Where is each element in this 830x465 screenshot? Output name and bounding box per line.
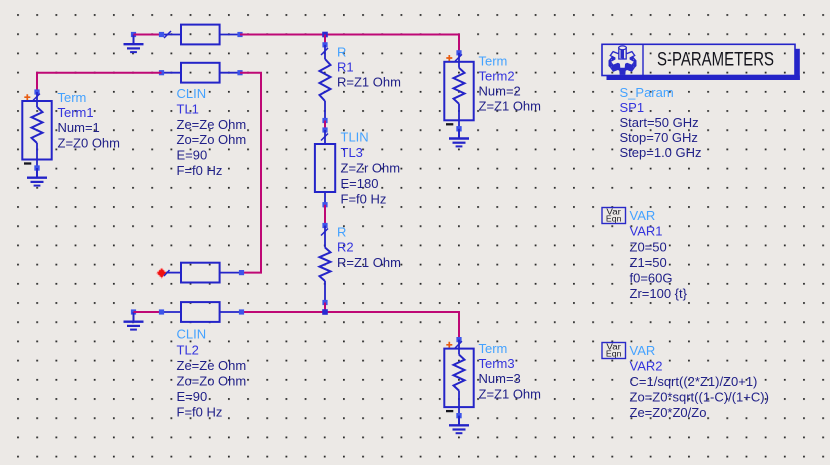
svg-text:Term3: Term3 [479, 356, 515, 371]
wire: GND1 to CLIN TL1 pin 2 [134, 34, 162, 36]
svg-text:F=f0 Hz: F=f0 Hz [177, 163, 223, 178]
wire: TL1 pin 4 to Term1 [37, 73, 162, 92]
svg-text:Num=2: Num=2 [479, 84, 521, 99]
ground GND1 (top-left, at CLIN TL1 pin 2) [124, 32, 144, 52]
svg-text:Z0=50: Z0=50 [630, 239, 667, 254]
svg-text:TLIN: TLIN [341, 130, 369, 145]
svg-text:VAR2: VAR2 [630, 359, 663, 374]
node: Term3 bottom pin [456, 413, 461, 418]
port/terminator Term1 [22, 92, 51, 168]
svg-text:SP1: SP1 [620, 100, 645, 115]
svg-text:Num=1: Num=1 [58, 120, 100, 135]
wire: R2 pin 2 to node n3 [324, 303, 326, 313]
unconnected pin marker: TL2 pin 2 (red diamond) [157, 268, 170, 278]
variables block VAR1 (VarEqn icon) [602, 208, 626, 224]
svg-text:VAR: VAR [630, 208, 656, 223]
svg-text:C=1/sqrt((2*Z1)/Z0+1): C=1/sqrt((2*Z1)/Z0+1) [630, 374, 758, 389]
R1 value labels [337, 45, 401, 90]
svg-text:Ze=Z0*Z0/Zo: Ze=Z0*Z0/Zo [630, 405, 707, 420]
gear icon [609, 46, 637, 75]
Term1 value labels [58, 90, 121, 150]
svg-text:Zr=100 {t}: Zr=100 {t} [630, 286, 688, 301]
ground GND2 (left of CLIN TL2) [124, 309, 144, 329]
S_Param SP1 value labels [620, 85, 702, 160]
svg-text:Start=50 GHz: Start=50 GHz [620, 115, 699, 130]
svg-text:TL1: TL1 [177, 101, 199, 116]
wire: TL1 pin 3 down to CLIN TL2 pin 1 [240, 73, 261, 273]
svg-text:S-PARAMETERS: S-PARAMETERS [657, 49, 774, 70]
svg-text:Zo=Z0*sqrt((1-C)/(1+C)): Zo=Z0*sqrt((1-C)/(1+C)) [630, 390, 769, 405]
CLIN TL2 value labels [177, 327, 247, 420]
coupled-line CLIN TL2 [159, 263, 244, 322]
node: Term2 top pin [456, 50, 461, 55]
transmission line TLIN TL3 [315, 127, 335, 207]
variables block VAR2 (VarEqn icon) [602, 343, 626, 359]
svg-text:F=f0 Hz: F=f0 Hz [177, 405, 223, 420]
wire: TL3 pin 2 to R2 pin 1 [324, 205, 326, 226]
svg-text:Term: Term [479, 53, 508, 68]
svg-text:Num=3: Num=3 [479, 371, 521, 386]
svg-text:Z=Z1 Ohm: Z=Z1 Ohm [479, 99, 542, 114]
svg-text:S_Param: S_Param [620, 85, 674, 100]
node: Term2 bottom pin [456, 126, 461, 131]
TL3 value labels [341, 130, 401, 207]
svg-text:CLIN: CLIN [177, 327, 207, 342]
svg-text:R=Z1 Ohm: R=Z1 Ohm [337, 75, 401, 90]
R2 value labels [337, 225, 401, 270]
svg-text:Z=Zr Ohm: Z=Zr Ohm [341, 161, 401, 176]
VAR1 value labels [630, 208, 688, 301]
svg-text:Z1=50: Z1=50 [630, 255, 667, 270]
svg-text:R1: R1 [337, 60, 354, 75]
ground below Term3 [449, 413, 469, 433]
svg-text:E=90: E=90 [177, 148, 208, 163]
svg-text:E=90: E=90 [177, 389, 208, 404]
svg-text:Zo=Zo Ohm: Zo=Zo Ohm [177, 374, 247, 389]
svg-text:f0=60G: f0=60G [630, 271, 673, 286]
ground below Term1 [27, 165, 47, 185]
svg-text:R2: R2 [337, 240, 354, 255]
resistor R1 [320, 42, 331, 123]
svg-text:Z=Z1 Ohm: Z=Z1 Ohm [479, 386, 542, 401]
svg-text:VAR1: VAR1 [630, 224, 663, 239]
svg-text:Z=Z0 Ohm: Z=Z0 Ohm [58, 135, 121, 150]
wire: GND2 to CLIN TL2 pin 4 [134, 311, 162, 313]
svg-text:R: R [337, 45, 346, 60]
node: Term3 top pin [456, 337, 461, 342]
CLIN TL1 value labels [177, 86, 247, 178]
svg-text:Step=1.0 GHz: Step=1.0 GHz [620, 145, 702, 160]
node: Term1 bottom pin [34, 165, 39, 170]
simulation controller S-PARAMETERS (SP1) [602, 44, 800, 80]
junction: node n1 (R1 top) [322, 32, 328, 38]
svg-text:Ze=Ze Ohm: Ze=Ze Ohm [177, 117, 247, 132]
port/terminator Term3 [444, 340, 473, 416]
Term2 value labels [479, 53, 542, 113]
svg-text:TL3: TL3 [341, 145, 363, 160]
wire: R1 pin 2 to TL3 pin 1 [324, 121, 326, 131]
svg-text:Term: Term [479, 341, 508, 356]
port/terminator Term2 [444, 53, 473, 129]
wire: node n1 to R1 pin 1 [324, 35, 326, 45]
svg-text:Zo=Zo Ohm: Zo=Zo Ohm [177, 132, 247, 147]
svg-text:Term2: Term2 [479, 68, 515, 83]
VAR2 value labels [630, 343, 769, 420]
svg-text:E=180: E=180 [341, 176, 379, 191]
wire: bottom rail from TL2 pin 3 to Term3 [242, 312, 460, 340]
node: Term1 top pin [34, 89, 39, 94]
svg-text:CLIN: CLIN [177, 86, 207, 101]
wire: TL1 pin 1 along top rail to Term2 [240, 35, 459, 53]
svg-text:Eqn: Eqn [606, 350, 622, 359]
resistor R2 [320, 223, 331, 305]
svg-text:F=f0 Hz: F=f0 Hz [341, 192, 387, 207]
svg-text:Stop=70 GHz: Stop=70 GHz [620, 130, 698, 145]
ground below Term2 [449, 126, 469, 146]
coupled-line CLIN TL1 [159, 25, 243, 83]
svg-text:Term1: Term1 [58, 105, 94, 120]
svg-text:Ze=Ze Ohm: Ze=Ze Ohm [177, 358, 247, 373]
svg-text:Term: Term [58, 90, 87, 105]
svg-text:Eqn: Eqn [606, 215, 622, 224]
Term3 value labels [479, 341, 542, 401]
svg-text:R=Z1 Ohm: R=Z1 Ohm [337, 255, 401, 270]
svg-text:TL2: TL2 [177, 342, 199, 357]
junction: node n3 (R2 bottom) [322, 309, 328, 315]
svg-text:R: R [337, 225, 346, 240]
svg-text:VAR: VAR [630, 343, 656, 358]
